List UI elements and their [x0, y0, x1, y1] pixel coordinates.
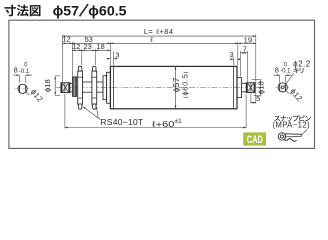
- svg-text:-0.1: -0.1: [19, 69, 30, 75]
- right shaft stub: [241, 82, 246, 84]
- bearing collar step: [103, 76, 107, 100]
- sprocket 2 (RS40): [93, 66, 96, 71]
- svg-text:ϕ18: ϕ18: [256, 81, 265, 94]
- hub between sprockets: [83, 81, 92, 83]
- extension line at ring right edge: [240, 51, 242, 77]
- label snap pin text スナップピン: [274, 116, 280, 121]
- svg-text:RS40−10T: RS40−10T: [100, 117, 143, 127]
- right shaft milled flat end with cross: [246, 83, 255, 93]
- bushing after sprocket 2: [97, 81, 103, 83]
- svg-text:ℓ+60: ℓ+60: [151, 119, 175, 129]
- extension line at left cap line: [113, 52, 115, 65]
- dim 8 -0.1 right end: [279, 75, 281, 82]
- dim ϕ18 left shaft: [55, 75, 60, 77]
- extension line at shaft right end upper: [255, 35, 257, 83]
- label ϕ12 right end view: [286, 91, 289, 94]
- dim l+60 ±1: [64, 94, 66, 129]
- svg-text:-0.1: -0.1: [280, 69, 291, 75]
- left snap-pin groove line: [64, 83, 66, 93]
- svg-text:ϕ2.2: ϕ2.2: [293, 59, 311, 68]
- svg-text:12: 12: [62, 35, 70, 44]
- extension line at collar left edge: [71, 42, 73, 76]
- dim ϕ57 (ϕ60.5) tube diameter: [175, 66, 177, 108]
- extension line at sprocket 2 center: [94, 49, 96, 65]
- svg-text:(MPA−12): (MPA−12): [272, 120, 310, 129]
- dim ϕ18 right shaft: [252, 79, 262, 81]
- svg-text:8: 8: [275, 66, 279, 75]
- svg-text:±1: ±1: [174, 118, 182, 125]
- title 寸法図: [4, 5, 15, 17]
- tube cap line right: [233, 66, 235, 108]
- extension line at right flat start: [246, 51, 248, 82]
- svg-text:8: 8: [14, 66, 18, 75]
- right snap-pin groove line: [250, 83, 252, 93]
- extension line at tube right end: [237, 42, 239, 65]
- label ϕ12 left end view: [26, 92, 29, 95]
- svg-text:18: 18: [96, 42, 104, 51]
- svg-text:5: 5: [256, 94, 260, 103]
- tube cap line left: [113, 66, 115, 108]
- dim 8 -0.1 left end: [19, 75, 21, 83]
- svg-text:ϕ18: ϕ18: [43, 79, 52, 92]
- extension line at right cap line: [233, 57, 235, 65]
- roller tube ϕ57: [110, 66, 237, 108]
- set collar: [73, 77, 77, 97]
- sprocket 1 (RS40): [78, 66, 81, 71]
- svg-text:(ϕ60.5): (ϕ60.5): [180, 71, 189, 98]
- bearing housing: [107, 72, 111, 103]
- svg-text:ϕ60.5: ϕ60.5: [88, 3, 126, 19]
- left end view circle (shaft cross-section): [18, 84, 27, 93]
- left shaft milled flat end with cross: [61, 83, 70, 93]
- CAD badge: [243, 132, 266, 145]
- right end view circle with ϕ2.2 hole: [278, 83, 287, 92]
- extension line at tube left end: [109, 42, 111, 65]
- left end view centerline: [15, 88, 30, 90]
- drawing frame: [9, 20, 315, 148]
- right bearing ring: [237, 78, 241, 98]
- dim 5 right groove to end: [250, 93, 252, 103]
- centerline main view: [56, 87, 260, 89]
- svg-text:L= ℓ+84: L= ℓ+84: [144, 27, 174, 36]
- snap pin icon: [278, 130, 307, 141]
- extension line at shaft right end lower: [255, 93, 257, 104]
- extension line at sprocket 1 center: [81, 49, 83, 65]
- left shaft stub: [70, 82, 73, 84]
- svg-text:ϕ57: ϕ57: [53, 3, 80, 19]
- svg-text:3: 3: [230, 50, 234, 59]
- left end view flats: [19, 85, 21, 93]
- extension line at shaft left end: [61, 35, 63, 83]
- svg-text:CAD: CAD: [247, 134, 263, 146]
